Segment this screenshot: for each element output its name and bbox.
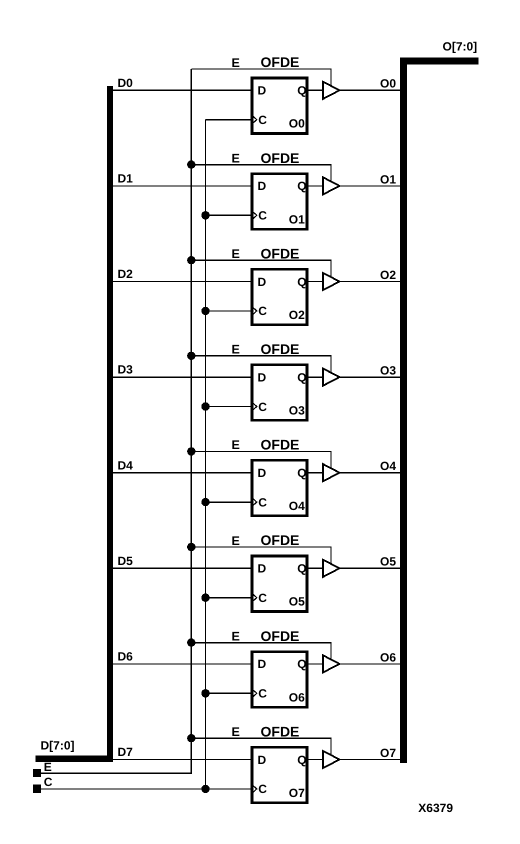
svg-text:O4: O4 [289,499,305,513]
svg-text:E: E [232,247,240,261]
clock input chevron, cell 3 [253,403,257,410]
wire D3 from bus to flip-flop D pin [113,376,253,378]
wire Q output to buffer, cell 5 [307,567,323,569]
svg-text:D[7:0]: D[7:0] [41,738,75,752]
wire E branch to tri-state buffer, cell 3 [191,356,331,373]
flip-flop OFDE bit 6 body [252,652,307,708]
tri-state buffer, cell 4 [323,464,340,481]
wire Q output to buffer, cell 3 [307,376,323,378]
svg-text:C: C [258,591,267,605]
svg-text:X6379: X6379 [418,801,453,815]
junction dot E column, cell 4 [187,447,195,455]
svg-text:E: E [232,534,240,548]
svg-text:D: D [258,466,267,480]
tri-state buffer, cell 7 [323,751,340,768]
flip-flop OFDE bit 4 body [252,460,307,516]
svg-text:O6: O6 [289,690,305,704]
clock input chevron, cell 6 [253,690,257,697]
svg-text:O5: O5 [289,595,305,609]
svg-text:D7: D7 [118,745,134,759]
svg-text:Q: Q [297,84,306,98]
svg-text:E: E [232,629,240,643]
svg-text:E: E [232,725,240,739]
wire D0 from bus to flip-flop D pin [113,89,253,91]
junction dot C column, cell 3 [201,402,209,410]
wire Q output to buffer, cell 0 [307,89,323,91]
tri-state buffer, cell 6 [323,655,340,672]
svg-text:Q: Q [297,753,306,767]
svg-text:OFDE: OFDE [261,628,300,644]
wire E branch to tri-state buffer, cell 5 [191,547,331,564]
svg-text:D: D [258,275,267,289]
svg-text:D: D [258,370,267,384]
junction dot E column, cell 6 [187,638,195,646]
wire D7 from bus to flip-flop D pin [113,759,253,761]
wire C branch to clock pin, cell 7 [206,788,254,790]
wire buffer output to bus O1, cell 1 [340,185,401,187]
svg-text:Q: Q [297,179,306,193]
wire buffer output to bus O0, cell 0 [340,89,401,91]
svg-text:C: C [44,775,53,789]
bus O[7:0] right vertical segment [400,58,407,763]
svg-text:Q: Q [297,275,306,289]
svg-text:Q: Q [297,370,306,384]
wire E branch to tri-state buffer, cell 6 [191,643,331,660]
wire E branch to tri-state buffer, cell 2 [191,260,331,277]
svg-text:D3: D3 [118,363,134,377]
svg-text:OFDE: OFDE [261,54,300,70]
svg-text:OFDE: OFDE [261,532,300,548]
wire Q output to buffer, cell 6 [307,663,323,665]
svg-text:C: C [258,495,267,509]
junction dot C column, cell 7 [201,785,209,793]
junction dot E column, cell 5 [187,543,195,551]
wire C branch to clock pin, cell 4 [206,501,254,503]
wire E branch to tri-state buffer, cell 7 [191,738,331,755]
tri-state buffer, cell 3 [323,369,340,386]
svg-text:O4: O4 [380,459,396,473]
wire C branch to clock pin, cell 2 [206,310,254,312]
wire buffer output to bus O3, cell 3 [340,376,401,378]
svg-text:O3: O3 [380,364,396,378]
svg-text:D4: D4 [118,458,134,472]
wire Q output to buffer, cell 4 [307,472,323,474]
svg-text:D5: D5 [118,554,134,568]
svg-text:D: D [258,753,267,767]
svg-text:O6: O6 [380,650,396,664]
clock input chevron, cell 1 [253,212,257,219]
svg-text:O5: O5 [380,555,396,569]
flip-flop OFDE bit 1 body [252,174,307,230]
terminal square input E [33,769,41,777]
junction dot E column, cell 1 [187,160,195,168]
junction dot E column, cell 2 [187,256,195,264]
wire C branch to clock pin, cell 3 [206,406,254,408]
junction dot C column, cell 6 [201,689,209,697]
svg-text:OFDE: OFDE [261,245,300,261]
wire C branch to clock pin, cell 6 [206,692,254,694]
junction dot E column, cell 3 [187,352,195,360]
svg-text:C: C [258,113,267,127]
wire C branch to clock pin, cell 0 [206,119,254,121]
flip-flop OFDE bit 2 body [252,269,307,325]
terminal square input C [33,785,41,793]
wire buffer output to bus O2, cell 2 [340,281,401,283]
wire E branch to tri-state buffer, cell 4 [191,451,331,468]
svg-text:C: C [258,304,267,318]
svg-text:O0: O0 [380,77,396,91]
junction dot E column, cell 7 [187,734,195,742]
svg-text:E: E [44,760,52,774]
wire C vertical column [205,120,207,789]
clock input chevron, cell 2 [253,307,257,314]
junction dot C column, cell 5 [201,594,209,602]
wire Q output to buffer, cell 7 [307,759,323,761]
svg-text:D: D [258,657,267,671]
wire buffer output to bus O5, cell 5 [340,567,401,569]
svg-text:OFDE: OFDE [261,437,300,453]
clock input chevron, cell 0 [253,116,257,123]
svg-text:O2: O2 [380,268,396,282]
svg-text:O7: O7 [289,786,305,800]
junction dot C column, cell 2 [201,307,209,315]
svg-text:Q: Q [297,466,306,480]
svg-text:E: E [232,151,240,165]
wire buffer output to bus O6, cell 6 [340,663,401,665]
tri-state buffer, cell 1 [323,177,340,194]
flip-flop OFDE bit 0 body [252,78,307,134]
clock input chevron, cell 5 [253,594,257,601]
junction dot C column, cell 1 [201,211,209,219]
wire E branch to tri-state buffer, cell 0 [191,69,331,86]
wire E vertical column [190,69,192,773]
wire C input to C column and cell 7 clock [41,788,206,790]
svg-text:D: D [258,179,267,193]
svg-text:O3: O3 [289,404,305,418]
wire E branch to tri-state buffer, cell 1 [191,165,331,182]
svg-text:O7: O7 [380,746,396,760]
svg-text:D: D [258,84,267,98]
clock input chevron, cell 4 [253,499,257,506]
svg-text:Q: Q [297,657,306,671]
wire D5 from bus to flip-flop D pin [113,567,253,569]
wire buffer output to bus O4, cell 4 [340,472,401,474]
svg-text:D6: D6 [118,650,134,664]
svg-text:C: C [258,400,267,414]
svg-text:D0: D0 [118,76,134,90]
svg-text:C: C [258,209,267,223]
clock input chevron, cell 7 [253,785,257,792]
wire C branch to clock pin, cell 5 [206,597,254,599]
wire D2 from bus to flip-flop D pin [113,281,253,283]
bus D[7:0] bottom horizontal segment [36,755,113,761]
bus D[7:0] left vertical segment [107,86,113,762]
bus O[7:0] top horizontal segment [400,58,478,65]
svg-text:O0: O0 [289,117,305,131]
wire D4 from bus to flip-flop D pin [113,472,253,474]
wire buffer output to bus O7, cell 7 [340,759,401,761]
flip-flop OFDE bit 7 body [252,747,307,803]
wire Q output to buffer, cell 1 [307,185,323,187]
svg-text:O1: O1 [289,212,305,226]
svg-text:D: D [258,562,267,576]
svg-text:E: E [232,438,240,452]
svg-text:OFDE: OFDE [261,723,300,739]
tri-state buffer, cell 5 [323,560,340,577]
flip-flop OFDE bit 5 body [252,556,307,612]
svg-text:O2: O2 [289,308,305,322]
wire E input to E column [41,738,191,773]
svg-text:OFDE: OFDE [261,150,300,166]
svg-text:E: E [232,56,240,70]
junction dot C column, cell 4 [201,498,209,506]
svg-text:D2: D2 [118,267,134,281]
tri-state buffer, cell 0 [323,82,340,99]
tri-state buffer, cell 2 [323,273,340,290]
wire D6 from bus to flip-flop D pin [113,663,253,665]
wire Q output to buffer, cell 2 [307,281,323,283]
svg-text:O[7:0]: O[7:0] [443,40,478,54]
svg-text:E: E [232,343,240,357]
wire D1 from bus to flip-flop D pin [113,185,253,187]
svg-text:C: C [258,687,267,701]
svg-text:O1: O1 [380,172,396,186]
svg-text:Q: Q [297,562,306,576]
flip-flop OFDE bit 3 body [252,365,307,421]
svg-text:D1: D1 [118,172,134,186]
wire C branch to clock pin, cell 1 [206,214,254,216]
svg-text:C: C [258,782,267,796]
svg-text:OFDE: OFDE [261,341,300,357]
